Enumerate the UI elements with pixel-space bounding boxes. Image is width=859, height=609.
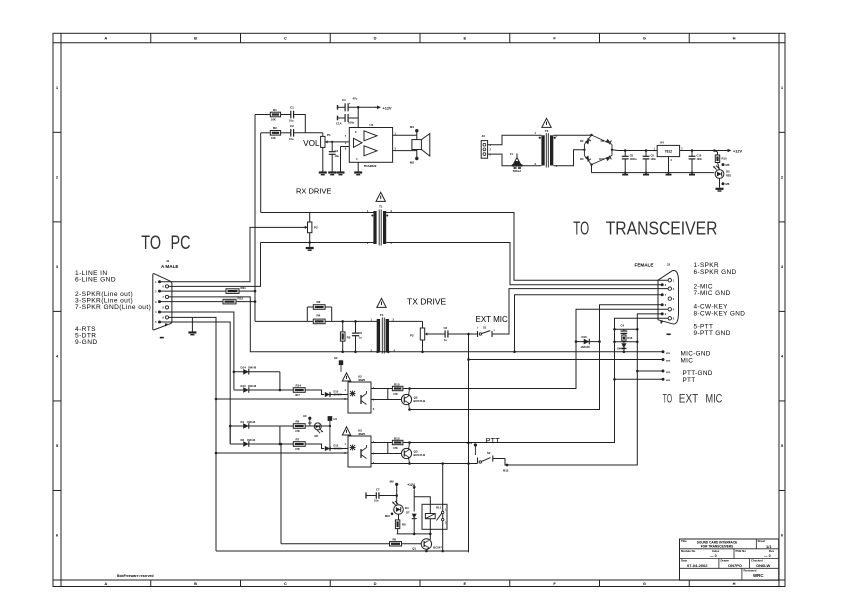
svg-text:WRC: WRC: [753, 573, 764, 578]
svg-text:E: E: [464, 581, 467, 586]
svg-text:R16: R16: [628, 336, 633, 340]
svg-text:T2: T2: [380, 313, 384, 317]
svg-text:TO: TO: [573, 218, 589, 238]
svg-text:B: B: [194, 581, 197, 586]
svg-text:R7: R7: [296, 438, 300, 442]
svg-text:A MALE: A MALE: [161, 264, 178, 269]
svg-text:10K: 10K: [271, 118, 276, 122]
svg-text:U4: U4: [660, 140, 664, 144]
svg-text:07-04-2002: 07-04-2002: [687, 563, 708, 568]
svg-text:100n: 100n: [348, 121, 355, 125]
svg-text:BobFreeware reserved: BobFreeware reserved: [117, 574, 154, 578]
svg-text:R4: R4: [317, 314, 321, 318]
svg-text:M12: M12: [503, 469, 509, 473]
svg-text:R13: R13: [394, 436, 400, 440]
svg-text:D8: D8: [315, 434, 319, 438]
svg-text:A: A: [104, 36, 107, 41]
svg-text:7-SPKR GND(Line out): 7-SPKR GND(Line out): [75, 304, 151, 311]
svg-text:M2: M2: [410, 161, 414, 165]
svg-text:4N25: 4N25: [358, 378, 366, 382]
svg-text:BC547-B: BC547-B: [414, 399, 426, 403]
svg-text:10u: 10u: [289, 119, 294, 123]
svg-text:P2: P2: [314, 226, 318, 230]
svg-text:MIC: MIC: [681, 357, 694, 364]
svg-text:Sheet: Sheet: [758, 539, 766, 543]
svg-text:D9: D9: [601, 139, 605, 143]
svg-text:+12V: +12V: [407, 483, 415, 487]
svg-text:C1A: C1A: [336, 121, 342, 125]
svg-text:D1: D1: [241, 420, 245, 424]
svg-text:D5: D5: [726, 170, 730, 174]
svg-text:R4: R4: [296, 420, 300, 424]
svg-text:R9: R9: [402, 522, 406, 526]
svg-text:D2: D2: [580, 139, 584, 143]
svg-text:FEMALE: FEMALE: [635, 263, 654, 268]
svg-text:MIC-GND: MIC-GND: [681, 350, 711, 357]
svg-text:H: H: [733, 36, 736, 41]
svg-text:+12V: +12V: [383, 106, 392, 110]
svg-text:B: B: [194, 36, 197, 41]
svg-text:ON6LW: ON6LW: [756, 563, 770, 568]
svg-text:10n: 10n: [374, 499, 379, 503]
svg-text:C10: C10: [697, 154, 702, 158]
svg-text:BC547-B: BC547-B: [414, 453, 426, 457]
svg-text:7812: 7812: [665, 150, 673, 154]
svg-text:C6: C6: [444, 326, 448, 330]
svg-text:D4: D4: [405, 506, 409, 510]
svg-text:TX DRIVE: TX DRIVE: [407, 297, 447, 307]
svg-text:TRANSCEIVER: TRANSCEIVER: [606, 218, 718, 238]
svg-text:TO: TO: [663, 392, 673, 405]
svg-text:R14: R14: [296, 384, 302, 388]
svg-text:8-CW-KEY GND: 8-CW-KEY GND: [694, 310, 746, 317]
svg-text:G: G: [643, 36, 646, 41]
svg-text:J1: J1: [166, 259, 170, 263]
svg-text:— 0: — 0: [764, 554, 771, 558]
svg-text:T1: T1: [379, 204, 383, 208]
svg-text:R6: R6: [393, 537, 397, 541]
svg-text:J3: J3: [482, 134, 486, 138]
svg-text:S1: S1: [483, 326, 487, 330]
svg-text:T3: T3: [545, 129, 549, 133]
svg-text:R10: R10: [722, 157, 728, 161]
svg-text:+: +: [349, 101, 351, 105]
svg-text:10K: 10K: [271, 136, 276, 140]
svg-text:M10: M10: [385, 514, 391, 518]
svg-text:6-LINE GND: 6-LINE GND: [75, 277, 116, 284]
svg-text:9-PTT GND: 9-PTT GND: [694, 330, 731, 337]
svg-text:MIC: MIC: [706, 392, 723, 405]
svg-text:D14: D14: [241, 366, 247, 370]
svg-text:10u: 10u: [335, 154, 340, 158]
svg-text:47K: 47K: [295, 429, 300, 433]
svg-text:PTT: PTT: [486, 436, 501, 445]
svg-text:1N4148: 1N4148: [248, 367, 257, 370]
svg-text:100n: 100n: [697, 158, 703, 161]
svg-text:H4: H4: [334, 417, 338, 421]
svg-text:U1: U1: [370, 123, 374, 127]
svg-text:1N4148: 1N4148: [247, 421, 256, 424]
svg-text:47K: 47K: [393, 446, 398, 450]
svg-text:R15: R15: [394, 382, 400, 386]
svg-text:47K: 47K: [393, 392, 398, 396]
svg-text:10u: 10u: [289, 137, 294, 141]
svg-text:D2: D2: [241, 438, 245, 442]
svg-text:C9: C9: [651, 154, 655, 158]
svg-text:H3: H3: [303, 414, 307, 418]
svg-text:D13: D13: [241, 384, 247, 388]
svg-text:1N4148: 1N4148: [248, 385, 257, 388]
svg-text:4K7: 4K7: [295, 393, 300, 397]
svg-text:D10: D10: [599, 157, 604, 161]
svg-text:D12: D12: [334, 443, 339, 447]
svg-text:A: A: [104, 581, 107, 586]
svg-text:Index: Index: [712, 549, 720, 553]
svg-text:S2: S2: [487, 451, 491, 455]
svg-text:D3: D3: [580, 157, 584, 161]
svg-text:Q1: Q1: [412, 546, 416, 550]
svg-text:M11: M11: [467, 441, 473, 445]
svg-text:C1: C1: [342, 98, 346, 102]
svg-text:D: D: [374, 36, 377, 41]
svg-text:C: C: [284, 581, 287, 586]
svg-text:D7: D7: [406, 511, 410, 515]
svg-text:BC547: BC547: [433, 546, 442, 550]
svg-text:M5: M5: [726, 163, 730, 167]
svg-text:C5: C5: [359, 331, 363, 335]
svg-text:H: H: [733, 581, 736, 586]
svg-text:EXT MIC: EXT MIC: [476, 315, 509, 324]
svg-text:— 0: — 0: [710, 554, 717, 558]
svg-text:100n: 100n: [651, 158, 657, 161]
svg-text:EXT: EXT: [679, 392, 698, 405]
svg-text:+12V: +12V: [733, 150, 742, 154]
svg-text:C: C: [284, 36, 287, 41]
svg-text:C4: C4: [621, 324, 625, 328]
svg-text:H2: H2: [334, 356, 338, 360]
svg-text:TDA2822: TDA2822: [364, 164, 377, 168]
svg-text:R11: R11: [241, 286, 247, 290]
svg-text:6-SPKR GND: 6-SPKR GND: [694, 269, 737, 276]
svg-text:P3: P3: [410, 334, 414, 338]
svg-text:500mA: 500mA: [513, 169, 522, 173]
svg-text:PTT: PTT: [683, 377, 696, 384]
svg-text:4N25: 4N25: [358, 432, 366, 436]
svg-text:1u: 1u: [359, 335, 362, 339]
svg-text:M6: M6: [726, 182, 730, 186]
svg-text:RED: RED: [726, 175, 731, 178]
svg-text:J2: J2: [667, 263, 671, 267]
svg-text:PC: PC: [171, 233, 191, 254]
svg-text:Module No: Module No: [681, 549, 696, 553]
svg-text:Title: Title: [681, 539, 687, 543]
svg-text:7-MIC GND: 7-MIC GND: [694, 290, 731, 297]
svg-text:D16: D16: [582, 335, 588, 339]
svg-text:ON7PO: ON7PO: [728, 563, 742, 568]
svg-text:G: G: [643, 581, 646, 586]
svg-text:TO: TO: [141, 233, 161, 254]
svg-text:E: E: [464, 36, 467, 41]
svg-text:1N4148: 1N4148: [617, 348, 626, 351]
svg-text:M1: M1: [410, 125, 414, 129]
svg-text:1N4148: 1N4148: [581, 345, 591, 349]
svg-text:M9: M9: [390, 480, 394, 484]
svg-text:C2: C2: [290, 124, 294, 128]
svg-text:D15: D15: [334, 389, 339, 393]
svg-text:C1: C1: [290, 106, 294, 110]
svg-text:RX DRIVE: RX DRIVE: [296, 187, 331, 196]
svg-text:47K: 47K: [295, 447, 300, 451]
svg-text:R2: R2: [273, 126, 277, 130]
svg-text:Rev: Rev: [769, 549, 775, 553]
svg-text:C3: C3: [335, 149, 339, 153]
svg-text:C8: C8: [630, 154, 634, 158]
svg-text:RL1: RL1: [436, 506, 442, 510]
svg-text:47u: 47u: [353, 97, 358, 101]
svg-text:R3: R3: [317, 300, 321, 304]
svg-text:1000u: 1000u: [630, 158, 637, 161]
svg-text:Reviewed: Reviewed: [744, 569, 757, 573]
svg-text:9-GND: 9-GND: [75, 339, 98, 346]
svg-text:R1: R1: [273, 108, 277, 112]
svg-text:D: D: [374, 581, 377, 586]
svg-text:R5: R5: [347, 335, 351, 339]
svg-text:1N4148: 1N4148: [247, 439, 256, 442]
svg-text:C7: C7: [376, 488, 380, 492]
svg-text:VOL: VOL: [303, 139, 320, 148]
svg-text:P1: P1: [327, 133, 331, 137]
svg-text:1u: 1u: [444, 338, 447, 342]
svg-text:PCB No: PCB No: [736, 549, 747, 553]
